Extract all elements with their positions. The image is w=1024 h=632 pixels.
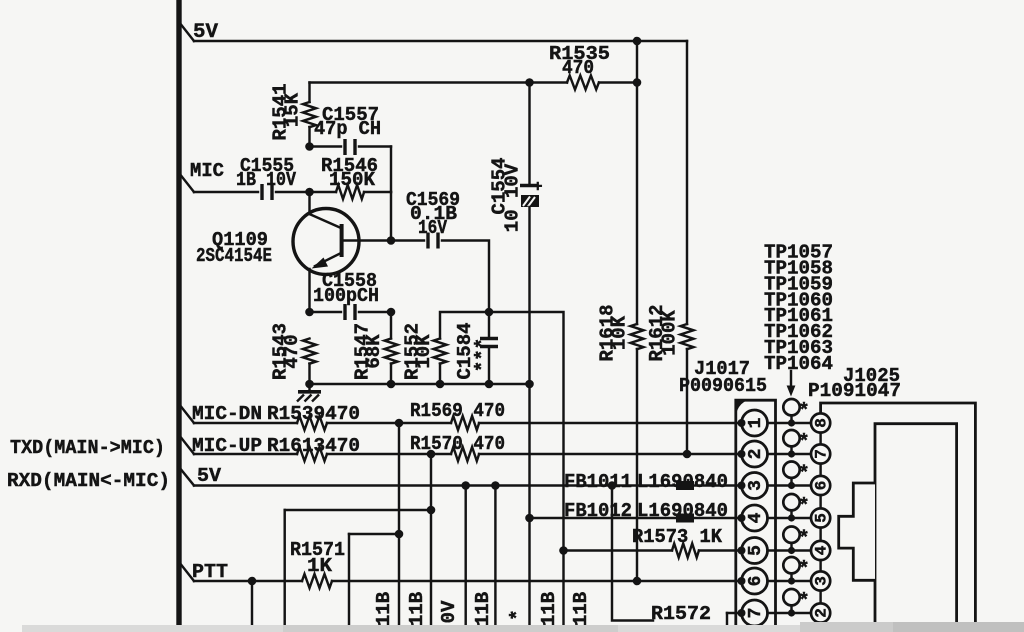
svg-text:11B: 11B [406, 592, 428, 626]
wire MIC line [194, 191, 258, 193]
test point TP1059 circle (row 3) [783, 462, 809, 486]
wire rail y82 left segment [310, 81, 568, 83]
svg-text:470: 470 [562, 57, 594, 79]
wire row5 from colF [564, 549, 673, 551]
resistor R1539 [297, 416, 327, 430]
node: 5V row branch b [491, 481, 500, 490]
node: R1612 / MIC-UP [683, 450, 692, 459]
node: R1547/ground [387, 380, 396, 389]
node: colB / C1558 / R1547 [387, 308, 396, 317]
wire colB down C1557 to R1546 [390, 147, 392, 193]
wire J1025 contact chain [819, 528, 821, 541]
svg-text:4: 4 [746, 512, 766, 523]
svg-text:P1091047: P1091047 [808, 380, 901, 402]
svg-text:TXD(MAIN->MIC): TXD(MAIN->MIC) [10, 437, 165, 459]
node: TP tail on row 7 [788, 609, 795, 616]
resistor R1569 [451, 416, 479, 430]
wire rail y82 right segment [599, 81, 637, 83]
wire R1541 to node X [308, 127, 310, 147]
scan border band (decorative) [22, 625, 1024, 632]
wire emitter down [308, 269, 310, 312]
wire FB1012 row to J1017 pin 4 [694, 517, 811, 519]
svg-text:5: 5 [746, 545, 766, 556]
wire MIC-DN column to bottom [398, 534, 400, 626]
svg-text:100K: 100K [659, 310, 681, 356]
wire node D to colF corner [489, 312, 564, 551]
node: TP tail on row 3 [788, 482, 795, 489]
resistor R1546 [336, 185, 364, 199]
svg-text:16V: 16V [418, 217, 447, 239]
svg-text:6: 6 [812, 481, 830, 491]
node: rail y82 / R1618 column [633, 78, 642, 87]
svg-text:*: * [798, 431, 809, 453]
wire 5V row to J1017 pin 3 [694, 484, 811, 486]
svg-text:11B: 11B [373, 592, 395, 626]
svg-text:47p CH: 47p CH [314, 118, 381, 140]
svg-text:10 10V: 10 10V [502, 163, 524, 232]
resistor R1571 [302, 574, 332, 588]
connector J1025 outer outline [821, 403, 976, 625]
node: pin 3 wire junction [738, 482, 746, 490]
svg-text:*: * [798, 558, 809, 580]
wire colB R1546 to base node [390, 192, 392, 241]
svg-text:8: 8 [812, 418, 830, 428]
node: C1584/ground [485, 380, 494, 389]
node: pin 4 wire junction [738, 514, 746, 522]
ground symbol [297, 384, 321, 402]
capacitor C1569 [426, 233, 429, 249]
wire 5V branch b to bottom [494, 486, 496, 627]
node: PTT branch to bottom [248, 577, 257, 586]
node: pin 7 wire junction [738, 609, 746, 617]
power bus (thick vertical line) [176, 0, 181, 632]
connector J1017 pin 4 [742, 505, 768, 531]
svg-text:*: * [798, 495, 809, 517]
node: TP tail on row 1 [788, 419, 795, 426]
wire colG: 5V row tap down to bottom stub [612, 486, 653, 621]
svg-text:FB1011: FB1011 [564, 471, 632, 493]
wire MIC-UP branch L [430, 454, 432, 510]
wire MIC-UP row to J1017 pin 2 [479, 453, 811, 455]
wire emitter node to C1558 [310, 311, 342, 313]
wire base lead [344, 239, 391, 241]
connector J1025 contact 8 [811, 413, 830, 432]
wire colF to bottom [562, 551, 564, 627]
wire PTT tick [179, 562, 194, 581]
svg-text:2: 2 [812, 608, 830, 618]
wire R1552 top corner to node D [440, 312, 489, 339]
test point TP1057 circle (row 1) [783, 399, 809, 423]
wire MIC-DN tick [179, 404, 194, 423]
capacitor C1557 [343, 139, 346, 155]
svg-text:***: *** [472, 338, 494, 372]
node: MIC-DN branch [395, 419, 404, 428]
wire FB1012 row [530, 517, 677, 519]
svg-text:MIC-DN: MIC-DN [192, 403, 262, 425]
test point TP1062 circle (row 6) [783, 557, 809, 581]
wire colB to R1547 [390, 312, 392, 339]
ferrite bead FB1012 [676, 514, 694, 523]
resistor R1613 [297, 447, 327, 461]
wire J1025 contact chain [819, 433, 821, 445]
wire MIC-DN row to J1017 pin 1 [479, 422, 811, 424]
svg-text:150K: 150K [329, 169, 376, 191]
svg-text:0V: 0V [438, 600, 460, 623]
wire 5V row [194, 484, 676, 486]
wire row7 (pin 7) [727, 612, 811, 614]
node: R1618 / PTT [633, 577, 642, 586]
wire R1546 to colB [364, 191, 391, 193]
connector J1025 contact 4 [811, 541, 830, 560]
node: TP tail on row 5 [788, 547, 795, 554]
wire C1554 bottom to ground line [528, 207, 530, 384]
connector J1017 pin 1 [742, 410, 768, 436]
node X: R1541/C1557/C1555/R1546/collector [305, 142, 314, 151]
svg-text:*: * [798, 400, 809, 422]
node: pin 1 wire junction [738, 419, 746, 427]
wire 5V rail corner down to R1612 [686, 41, 688, 324]
connector J1017 pin-1 marker [735, 399, 754, 417]
svg-text:100pCH: 100pCH [313, 285, 379, 307]
connector J1017 pin 7 [742, 600, 768, 626]
node: 5V rail / R1618 column junction [633, 37, 642, 46]
svg-text:1: 1 [746, 417, 766, 428]
node: C1554 column / ground line [525, 380, 534, 389]
capacitor C1558 [343, 304, 346, 320]
wire MIC-DN row [194, 422, 297, 424]
svg-text:*: * [798, 590, 809, 612]
svg-text:68K: 68K [363, 334, 385, 369]
test point TP1061 circle (row 5) [783, 527, 809, 551]
test point TP1063 circle (row 7) [783, 589, 809, 613]
wire C1557 to colB [359, 145, 391, 147]
svg-text:7: 7 [746, 608, 766, 619]
wire C1554/FB1012 column to bottom [528, 518, 530, 626]
wire 5V row tick [179, 467, 194, 486]
node: C1569 corner / R1552 / C1584 [485, 308, 494, 317]
svg-text:470: 470 [281, 334, 303, 368]
svg-text:*: * [507, 609, 529, 620]
capacitor C1554 (electrolytic) [528, 83, 530, 184]
connector J1025 contact 5 [811, 508, 830, 527]
resistor R1543 [303, 339, 316, 364]
svg-text:*: * [798, 528, 809, 550]
svg-text:R1572: R1572 [651, 603, 711, 625]
node: C1554 column / FB1012 row [525, 514, 534, 523]
node: base / C1569 / R1547 column [387, 236, 396, 245]
wire row7 corner down [726, 613, 728, 632]
connector J1017 pin 3 [742, 473, 768, 499]
resistor R1573 [672, 544, 699, 558]
wire PTT row [194, 580, 302, 582]
svg-text:2: 2 [746, 449, 766, 460]
transistor Q1109 2SC4154E [293, 209, 359, 275]
wire MIC-DN branch L [398, 423, 400, 534]
svg-text:RXD(MAIN<-MIC): RXD(MAIN<-MIC) [7, 470, 170, 492]
svg-text:10K: 10K [609, 315, 631, 350]
svg-text:P0090615: P0090615 [679, 375, 767, 397]
test point TP1058 circle (row 2) [783, 430, 809, 454]
wire C1555 to R1546 [276, 191, 336, 193]
connector J1017 body [736, 400, 776, 632]
svg-text:10K: 10K [413, 334, 435, 369]
wire collector (node X to Q1109) [308, 192, 310, 214]
resistor R1552 [434, 339, 447, 364]
connector J1017 pin 2 [742, 441, 768, 467]
wire MIC-UP row [194, 453, 297, 455]
wire 5V tick from bus [179, 22, 194, 41]
wire MIC-UP tick [179, 435, 194, 454]
wire J1025 contact chain [819, 591, 821, 604]
capacitor C1584 [488, 312, 490, 337]
svg-text:PTT: PTT [192, 561, 228, 583]
wire MIC-UP column to bottom [430, 510, 432, 626]
node: R1552/ground [436, 380, 445, 389]
connector J1025 contact 6 [811, 476, 830, 495]
node: emitter / C1558 / R1543 [305, 308, 314, 317]
svg-text:*: * [798, 463, 809, 485]
connector J1025 contact 2 [811, 603, 830, 622]
test point TP1060 circle (row 4) [783, 494, 809, 518]
capacitor C1555 [260, 184, 263, 200]
node: MIC-UP L junction [427, 506, 436, 515]
node: 5V row / colG branch [608, 481, 617, 490]
wire J1025 contact chain [819, 464, 821, 476]
svg-text:3: 3 [746, 480, 766, 491]
svg-text:15K: 15K [282, 92, 304, 127]
svg-text:5V: 5V [197, 465, 222, 487]
node: rail y82 / C1554 column [525, 78, 534, 87]
resistor R1570 [451, 447, 479, 461]
wire R1618 column lower (to PTT) [636, 349, 638, 581]
wire C1558 to colB [359, 311, 391, 313]
wire R1618 column upper [636, 83, 638, 325]
node: R1543/ground [305, 380, 314, 389]
svg-text:5: 5 [812, 513, 830, 523]
wire PTT row to J1017 pin 6 [332, 580, 811, 582]
connector J1025 contact 7 [811, 444, 830, 463]
wire C1569 to colD corner [442, 241, 489, 313]
wire base node to C1569 [391, 239, 424, 241]
arrow from TP labels to TP1057 [790, 371, 792, 387]
svg-text:1K: 1K [307, 555, 333, 577]
wire C1554 column to FB1012 row [528, 384, 530, 518]
node: pin 6 wire junction [738, 577, 746, 585]
wire R1612 to MIC-UP row [686, 349, 688, 454]
wire MIC tick from bus [179, 173, 194, 192]
connector J1025 inner outline [875, 424, 957, 625]
wire J1025 contact chain [819, 560, 821, 571]
svg-text:1B 10V: 1B 10V [236, 169, 297, 191]
node: 5V row branch a [461, 481, 470, 490]
wire 5V rail [194, 40, 687, 42]
svg-text:4: 4 [812, 545, 830, 555]
node: MIC-DN L junction [395, 530, 404, 539]
svg-text:R1569 470: R1569 470 [410, 400, 505, 422]
ferrite bead FB1011 [676, 481, 694, 490]
node: TP tail on row 2 [788, 450, 795, 457]
svg-text:2SC4154E: 2SC4154E [196, 245, 272, 267]
svg-text:11B: 11B [570, 592, 592, 626]
connector J1025 contact 3 [811, 571, 830, 590]
resistor R1612 [681, 324, 694, 349]
svg-text:+: + [533, 178, 543, 196]
wire J1025 contact chain [819, 495, 821, 508]
connector J1017 pin 5 [742, 538, 768, 564]
resistor R1547 [385, 339, 398, 364]
node: pin 5 wire junction [738, 547, 746, 555]
resistor R1541 [303, 102, 316, 127]
wire row5 to J1017 pin 5 [699, 549, 811, 551]
wire PTT down lead [251, 581, 253, 626]
wire 5V branch a to bottom [464, 486, 466, 627]
node: MIC line / node X column [305, 188, 314, 197]
node: MIC-UP branch [427, 450, 436, 459]
wire corner rail y82 down to R1541 [308, 83, 310, 103]
node: pin 2 wire junction [738, 450, 746, 458]
svg-text:R1570 470: R1570 470 [410, 433, 505, 455]
svg-text:R1539470: R1539470 [267, 403, 360, 425]
connector J1025 jack profile [839, 483, 875, 580]
svg-text:R1573 1K: R1573 1K [632, 526, 723, 548]
node: colF / row5 [559, 546, 568, 555]
wire R1543 to ground line [308, 364, 310, 385]
resistor R1618 [631, 324, 644, 349]
svg-text:11B: 11B [472, 592, 494, 626]
svg-text:TP1064: TP1064 [764, 353, 833, 375]
connector J1017 pin 6 [742, 568, 768, 594]
node: TP tail on row 4 [788, 514, 795, 521]
node: TP tail on row 6 [788, 577, 795, 584]
svg-text:11B: 11B [538, 592, 560, 626]
svg-text:7: 7 [812, 449, 830, 459]
wire node X to C1557 [310, 145, 342, 147]
resistor R1535 [567, 76, 599, 90]
wire 5V rail to R1535 rail [636, 41, 638, 83]
svg-text:3: 3 [812, 576, 830, 586]
svg-text:6: 6 [746, 576, 766, 587]
wire ground line [310, 383, 530, 385]
svg-text:MIC: MIC [190, 160, 224, 182]
